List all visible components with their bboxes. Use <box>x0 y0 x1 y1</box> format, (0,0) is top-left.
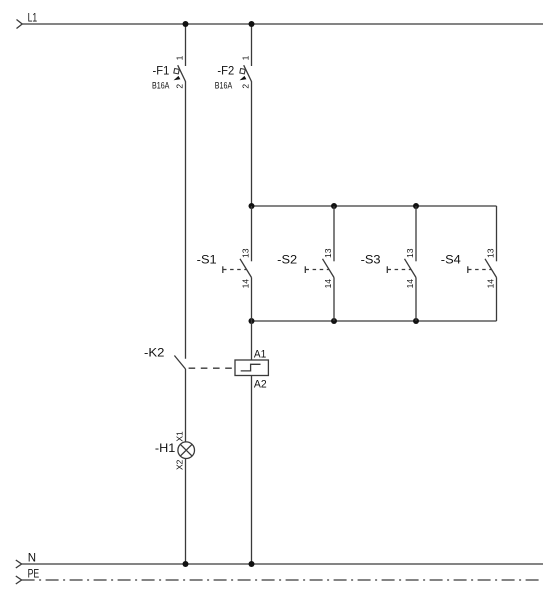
svg-text:-S1: -S1 <box>197 253 217 267</box>
wire H1 to N <box>185 459 187 565</box>
wire L1 to F2 <box>251 24 253 66</box>
rail N <box>16 560 543 568</box>
svg-text:-S3: -S3 <box>361 253 381 267</box>
coil K2 (impulse relay) <box>235 360 268 376</box>
wire L1 to F1 <box>185 24 187 66</box>
wire F2 to top bus <box>251 81 253 206</box>
svg-text:N: N <box>28 552 36 564</box>
top bus <box>252 205 497 207</box>
svg-text:A1: A1 <box>254 349 266 361</box>
svg-text:-H1: -H1 <box>155 441 176 455</box>
wire K2 to H1 <box>185 369 187 442</box>
wire F1 to K2 <box>185 81 187 359</box>
junction bottom bus / S1 <box>249 318 255 324</box>
rail L1 <box>17 20 543 29</box>
svg-text:-F1: -F1 <box>153 63 170 77</box>
wire coil K2 to N <box>251 376 253 565</box>
lamp H1 <box>178 442 195 459</box>
pushbutton S4 <box>468 206 497 321</box>
pushbutton S1 <box>223 206 252 321</box>
svg-text:13: 13 <box>241 248 251 258</box>
svg-text:14: 14 <box>241 279 251 289</box>
junction top bus / S2 <box>331 203 337 209</box>
pushbutton S3 <box>387 206 416 321</box>
rail PE <box>16 576 543 584</box>
breaker F1 <box>174 65 186 81</box>
svg-text:X2: X2 <box>175 459 185 470</box>
svg-text:2: 2 <box>175 84 185 89</box>
svg-text:2: 2 <box>241 84 251 89</box>
junction top bus / S3 <box>413 203 419 209</box>
svg-text:-F2: -F2 <box>217 63 234 77</box>
junction on L1 at F1 branch <box>183 21 189 27</box>
svg-text:14: 14 <box>405 279 415 289</box>
svg-text:PE: PE <box>28 569 40 581</box>
junction bottom bus / S3 <box>413 318 419 324</box>
svg-text:13: 13 <box>486 248 496 258</box>
svg-text:-S4: -S4 <box>441 253 461 267</box>
svg-text:14: 14 <box>486 279 496 289</box>
svg-text:13: 13 <box>323 248 333 258</box>
bottom bus <box>252 320 497 322</box>
svg-text:1: 1 <box>241 55 251 60</box>
svg-text:1: 1 <box>175 55 185 60</box>
breaker F2 <box>240 65 252 81</box>
mechanical link K2 (dashed) <box>189 367 235 369</box>
svg-text:B16A: B16A <box>152 81 169 91</box>
svg-text:-S2: -S2 <box>277 253 297 267</box>
junction on N at coil branch <box>249 561 255 567</box>
wire bottom bus to coil K2 <box>251 321 253 360</box>
pushbutton S2 <box>305 206 334 321</box>
svg-text:X1: X1 <box>175 431 185 442</box>
junction top bus / S1 <box>249 203 255 209</box>
junction on N at H1 branch <box>183 561 189 567</box>
svg-text:-K2: -K2 <box>144 346 165 360</box>
svg-text:13: 13 <box>405 248 415 258</box>
junction on L1 at F2 branch <box>249 21 255 27</box>
svg-text:14: 14 <box>323 279 333 289</box>
junction bottom bus / S2 <box>331 318 337 324</box>
contact K2 <box>174 356 185 370</box>
svg-text:A2: A2 <box>254 379 267 391</box>
svg-text:L1: L1 <box>28 13 38 25</box>
svg-text:B16A: B16A <box>215 81 232 91</box>
